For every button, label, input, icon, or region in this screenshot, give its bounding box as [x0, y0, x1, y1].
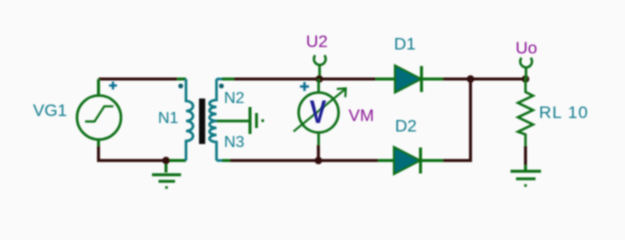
svg-text:N3: N3: [224, 134, 245, 151]
diode D1 cathode bar: [420, 66, 423, 92]
wire: green pin segment transformer top-right: [222, 78, 234, 81]
resistor RL zigzag: [518, 79, 533, 146]
svg-text:D1: D1: [394, 35, 416, 54]
svg-text:N2: N2: [224, 90, 245, 107]
phase dot secondary: [219, 84, 224, 89]
wire: RL bottom to ground: [524, 146, 527, 165]
VM arrow head: [337, 88, 346, 97]
wire: D1 cathode to output junction: [443, 78, 471, 81]
VG1 bottom pin: [97, 140, 100, 147]
transformer core: [199, 99, 205, 145]
svg-text:VM: VM: [349, 106, 375, 125]
transformer secondary windings N2 N3: [210, 79, 217, 161]
wire: transformer bottom-right pin stub: [217, 159, 223, 162]
voltage source VG1 circle: [77, 96, 121, 140]
svg-text:VG1: VG1: [33, 101, 67, 120]
plus sign VG1: [109, 82, 117, 90]
transformer primary winding N1: [186, 79, 193, 161]
svg-text:U2: U2: [306, 32, 328, 51]
junction dot at node Uo: [522, 75, 530, 83]
diode D2 triangle: [394, 147, 420, 174]
svg-text:D2: D2: [395, 117, 417, 136]
svg-text:V: V: [310, 94, 327, 130]
ground G2 under RL: [524, 165, 527, 171]
wire: output junction to node Uo: [471, 78, 526, 81]
VM arrow shaft: [294, 89, 346, 131]
VG1 top pin: [97, 79, 100, 96]
plus sign VM: [300, 82, 309, 91]
voltmeter VM top pin: [317, 79, 320, 92]
ground at center tap (rotated): [249, 107, 252, 134]
wire: VG1 top pin to transformer top-left: [99, 78, 178, 81]
wire: node Uo stub: [525, 68, 528, 79]
diode D2 cathode lead: [421, 159, 444, 162]
svg-text:Uo: Uo: [516, 39, 538, 58]
VG1 ramp waveform symbol: [86, 106, 113, 121]
wire: green pin transformer bottom-left: [166, 159, 186, 162]
wire: VG1 bottom run to ground junction: [99, 146, 167, 161]
diode D1 anode lead: [376, 78, 396, 81]
ground G1: [165, 161, 168, 173]
wire: transformer bottom-right to D2 anode: [230, 159, 378, 162]
wire: secondary center tap: [217, 120, 249, 123]
node U2 circle: [314, 55, 326, 65]
svg-text:N1: N1: [158, 110, 179, 127]
diode D2 anode lead: [378, 159, 394, 162]
wire: green pin segment transformer bottom-right: [222, 159, 230, 162]
wire: transformer top-right pin stub: [217, 78, 223, 81]
junction dot right top: [467, 75, 475, 83]
junction dot U2: [316, 75, 324, 83]
wire: green pin segment transformer top-left: [177, 78, 186, 81]
voltmeter VM bottom pin: [317, 133, 320, 146]
diode D1 triangle: [395, 66, 421, 93]
junction dot VM bottom: [315, 157, 323, 165]
wire: D2 cathode up to output junction: [443, 79, 471, 161]
wire: transformer top-right to D1 anode: [234, 78, 376, 81]
junction dot bottom-left: [162, 157, 170, 165]
svg-text:RL 10: RL 10: [539, 103, 589, 122]
phase dot primary: [178, 84, 183, 89]
wire: node U2 stub: [318, 66, 321, 80]
wire: VM bottom pin to bottom rail: [317, 145, 320, 161]
node Uo circle: [520, 58, 532, 68]
voltmeter VM circle: [299, 93, 339, 133]
diode D2 cathode bar: [419, 148, 422, 174]
diode D1 cathode lead: [422, 78, 444, 81]
